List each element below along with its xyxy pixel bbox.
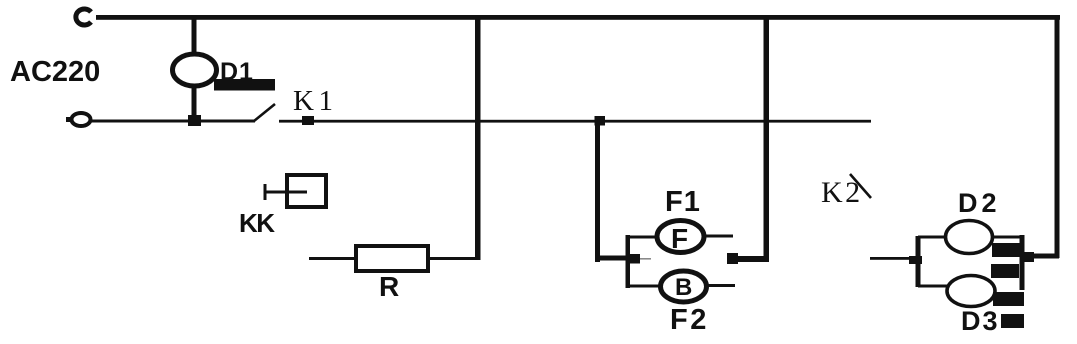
svg-text:KK: KK: [239, 208, 275, 238]
black bar 4: [1001, 314, 1024, 328]
wire: bottom-left segment: [90, 120, 255, 123]
svg-text:K1: K1: [293, 85, 337, 117]
junction: D1 to bottom wire: [188, 115, 201, 126]
junction on D2D3 feed: [909, 256, 922, 264]
faint lead from junction: [640, 258, 651, 260]
wire: D1 vertical: [192, 17, 197, 121]
black bar 3: [993, 292, 1024, 306]
wire: left parallel bar: [916, 236, 921, 287]
svg-text:B: B: [675, 274, 692, 301]
D1 label bar: [214, 79, 275, 91]
svg-text:AC220: AC220: [10, 56, 100, 88]
wire: bracket horizontal: [597, 256, 628, 261]
terminal L (top-left, open circle): [76, 9, 91, 25]
wire: vertical bus V4: [764, 15, 770, 259]
svg-text:D2: D2: [958, 188, 1001, 218]
svg-text:F1: F1: [665, 186, 701, 218]
wire: motor F left lead: [630, 236, 658, 239]
wire: D2D3 feed: [870, 257, 918, 260]
wire: vertical bus V2: [475, 15, 481, 260]
black bar 1: [992, 243, 1021, 257]
relay box KK: [287, 175, 326, 207]
wire: motor B left lead: [630, 285, 661, 288]
wire: motor F right lead: [704, 235, 733, 238]
wire: right bar to bus foot: [1022, 254, 1059, 259]
V3 top cap: [595, 116, 606, 126]
terminal N (bottom-left): [66, 117, 73, 122]
wire: right vertical bus: [1055, 15, 1060, 258]
wire: top bus: [96, 15, 1060, 20]
black bar 2: [991, 264, 1019, 278]
motor B: [661, 271, 707, 302]
wire: resistor right lead: [428, 257, 480, 260]
lamp D2: [946, 221, 993, 254]
junction stub right of bracket bar: [627, 254, 640, 264]
wire: right parallel bar: [1020, 235, 1025, 290]
switch K2 arm: [850, 174, 871, 198]
svg-text:F2: F2: [670, 304, 709, 336]
wire: K1 row horizontal: [279, 120, 871, 123]
wire: vertical V3 from K1 row: [595, 116, 600, 262]
svg-text:R: R: [379, 271, 399, 302]
wire: D2 right lead: [993, 236, 1022, 239]
KK lead tick: [264, 184, 267, 200]
wire: V4 bottom foot: [729, 256, 769, 262]
svg-text:F: F: [671, 223, 688, 254]
switch K1 arm: [254, 104, 275, 121]
motor F: [657, 221, 704, 253]
junction blob right: [1023, 252, 1034, 262]
wire: resistor left lead: [309, 257, 356, 260]
resistor R: [356, 246, 428, 271]
KK lead wire: [264, 191, 307, 194]
wire: D2 left lead: [918, 236, 947, 239]
lamp D3: [947, 276, 995, 307]
svg-text:D3: D3: [961, 306, 1000, 336]
lamp D1: [173, 54, 217, 86]
wire: D3 left lead: [918, 285, 949, 288]
junction blob at V4 foot: [727, 253, 738, 264]
wire: bracket vertical bar: [626, 235, 631, 288]
junction dot on K1 wire: [302, 116, 314, 125]
wire: motor B right lead: [706, 284, 735, 287]
